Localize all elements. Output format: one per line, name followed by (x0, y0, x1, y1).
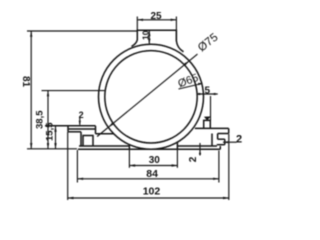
left flange left edge (67, 126, 69, 132)
dim 81 line (30, 31, 32, 149)
dim 15.5 line (55, 126, 57, 149)
arrow dim2 bottom (199, 150, 201, 155)
left ledge to circle (96, 133, 114, 135)
dim 102 left extension (67, 132, 69, 200)
svg-text:10: 10 (141, 30, 151, 40)
right flange right edge (228, 128, 230, 133)
dim 2 bottom tick (199, 143, 201, 156)
arrow 15.5 bottom (54, 143, 56, 149)
dim 102 right extension (228, 134, 230, 200)
left pad step (95, 126, 97, 134)
dim 38.5 line (47, 91, 49, 149)
arrow 38.5 top (47, 91, 49, 97)
arrow 84 left (77, 178, 83, 180)
left flange top surface (68, 128, 96, 130)
svg-text:2: 2 (188, 156, 199, 162)
dim 25 line (137, 19, 176, 21)
dim 84 right extension (218, 151, 220, 183)
arrow 30 right (172, 164, 178, 166)
slot right wall (176, 142, 178, 149)
arrow 84 right (213, 178, 219, 180)
svg-text:102: 102 (143, 186, 161, 198)
arrow 5 left inward (199, 93, 204, 95)
dim 84 left extension (76, 150, 78, 183)
base top edge left (79, 145, 129, 147)
dim 84 line (77, 178, 219, 180)
top boss pad outline (132, 30, 184, 52)
left hollow box (83, 136, 93, 147)
right riser wall (211, 134, 213, 147)
svg-text:81: 81 (20, 76, 31, 88)
arrow 102 right (223, 197, 229, 199)
svg-text:5: 5 (205, 86, 211, 97)
arrow dim2 right (223, 141, 228, 143)
arrow 25 left (137, 19, 143, 21)
ext 38.5 top (42, 90, 106, 92)
svg-text:30: 30 (149, 155, 161, 166)
arrow 102 left (68, 197, 74, 199)
arrow 25 right (171, 19, 177, 21)
right lip on flange (204, 120, 211, 128)
dim 5 line (197, 93, 218, 95)
inner circle Ø65 (105, 51, 197, 143)
dim 25 right extension (175, 17, 177, 42)
arrow 5 right inward (211, 93, 216, 95)
base top edge right (177, 145, 217, 147)
right hook lip bottom (217, 144, 225, 146)
dim 10 line (148, 30, 150, 44)
slot left wall (128, 145, 130, 150)
dia65 underline (179, 84, 203, 90)
arrow diameter lower (109, 123, 114, 128)
svg-text:2: 2 (236, 134, 242, 146)
dim 30 right extension (176, 150, 178, 168)
right flange underside (218, 133, 229, 135)
right hook lip right edge (224, 139, 226, 145)
dim 30 left extension (128, 150, 130, 168)
left flange raised pad top / 15.5 extension (45, 125, 96, 127)
arrow 10 top (148, 30, 150, 36)
arrow 38.5 bottom (47, 143, 49, 149)
arrow dia65 (198, 83, 203, 85)
svg-text:Ø75: Ø75 (196, 32, 221, 55)
arrow 81 bottom (30, 143, 32, 149)
svg-text:25: 25 (151, 11, 163, 22)
ext bottom shared (27, 148, 77, 150)
arrow 15.5 top (54, 126, 56, 132)
arrow diameter upper (184, 61, 189, 66)
arrow 30 left (129, 164, 135, 166)
arrow dim2 left (79, 121, 81, 126)
outer circle Ø75 (99, 44, 204, 149)
arrow 10 bottom (148, 39, 150, 45)
right flange top surface (195, 127, 229, 129)
right hook inner wall (217, 134, 219, 140)
svg-text:2: 2 (79, 110, 84, 120)
left flange underside (68, 131, 81, 133)
dim 2 right leader (223, 141, 237, 143)
dim 30 line (129, 165, 177, 167)
base bottom edge (78, 148, 220, 150)
dim 5 extension (210, 96, 212, 120)
right hook lip top (218, 138, 225, 140)
svg-text:84: 84 (146, 168, 158, 180)
arrow 5 extension blob at lip (204, 116, 211, 120)
base right edge (219, 146, 221, 149)
left riser wall (80, 132, 82, 146)
ext 81 top (27, 30, 137, 32)
dim 102 line (68, 197, 229, 199)
dim 2 left leader (79, 117, 81, 125)
arrow 81 top (30, 31, 32, 37)
svg-text:15,5: 15,5 (44, 122, 55, 141)
diameter leader line (97, 54, 197, 136)
dim 25 left extension (136, 17, 138, 31)
